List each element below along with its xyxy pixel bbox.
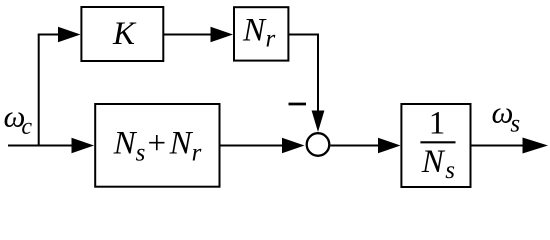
wire: Nr to corner <box>288 34 319 36</box>
arrowhead into Nr <box>211 27 234 43</box>
wire: summing junction to 1/Ns block <box>330 145 379 147</box>
summing junction circle <box>307 133 330 156</box>
arrowhead down into summing junction <box>312 111 325 133</box>
arrowhead output <box>523 138 549 154</box>
arrowhead into K <box>58 27 81 43</box>
wire: main line to Ns+Nr block <box>39 145 74 147</box>
node: branch point takeoff <box>38 35 40 147</box>
wire: Ns+Nr to summing junction <box>220 145 285 147</box>
arrowhead into Ns+Nr <box>72 138 95 154</box>
wire: output line <box>471 145 525 147</box>
wire: K to Nr <box>163 34 214 36</box>
svg-text:Ns+Nr: Ns+Nr <box>113 126 202 167</box>
block Nr <box>234 7 288 60</box>
wire: corner down to summing junction <box>317 34 319 113</box>
block Ns+Nr <box>95 104 219 187</box>
block K <box>81 7 163 61</box>
wire: branch to K <box>38 34 62 36</box>
arrowhead into 1/Ns <box>378 138 401 154</box>
arrowhead into summing junction <box>282 138 305 154</box>
fraction bar <box>420 141 455 143</box>
svg-text:K: K <box>112 16 137 52</box>
minus sign at summing junction <box>289 103 307 106</box>
wire: input line from omega_c <box>8 145 75 147</box>
svg-text:1: 1 <box>429 106 446 142</box>
block 1/Ns <box>401 104 470 187</box>
